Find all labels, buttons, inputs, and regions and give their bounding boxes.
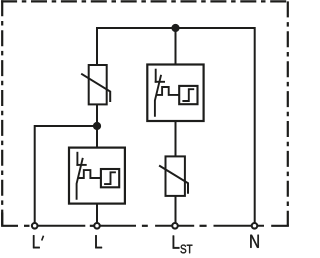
bottom rail dash-dot segment: left corner piece — [1, 213, 18, 226]
bottom rail dash between LST and N — [200, 225, 207, 227]
wire: varistor R1 bottom to junction — [96, 104, 98, 126]
terminal L' (open circle) — [32, 223, 38, 229]
terminal LST (open circle) — [172, 223, 178, 229]
spark gap F2 (triggered spark gap, lower left box) — [69, 148, 125, 204]
enclosure border right side (dash-dot) — [287, 1, 289, 226]
label L' — [33, 235, 44, 248]
spark gap F1 (triggered spark gap, top right box) — [147, 65, 203, 122]
wire: top rail down to varistor R1 — [96, 27, 98, 66]
bottom rail right corner piece — [271, 225, 289, 227]
bottom rail dash before L — [90, 225, 94, 227]
label N — [250, 235, 258, 248]
node: junction dot at varistor/branch — [93, 122, 101, 130]
bottom rail segment L' to gap — [35, 225, 86, 227]
terminal L (open circle) — [94, 223, 100, 229]
enclosure border left side (dash-dot) — [1, 0, 3, 226]
node: junction dot on top rail — [171, 24, 179, 32]
wire: right drop from top rail to terminal N — [254, 27, 256, 223]
label L — [95, 235, 102, 248]
wire: top rail down to spark gap F1 — [175, 28, 177, 65]
wire: L' column drop to terminal L' — [34, 125, 36, 223]
varistor R1 (top left) — [81, 65, 110, 104]
bottom rail segment gap to N — [214, 225, 265, 227]
bottom rail dash between L and LST — [142, 225, 148, 227]
wire: spark gap F1 bottom to varistor R2 — [175, 121, 177, 157]
label LST — [173, 236, 193, 254]
wire: spark gap F2 bottom to terminal L — [96, 204, 98, 224]
wire: top rail from column L to column N — [97, 27, 255, 29]
enclosure border top side (dash-dot) — [1, 0, 289, 2]
varistor R2 (middle right) — [159, 156, 188, 196]
bottom rail segment gap to LST — [155, 225, 194, 227]
wire: junction down to spark gap F2 — [96, 126, 98, 148]
wire: junction left to L' column — [35, 125, 97, 127]
bottom rail dash between corner and L' — [24, 225, 30, 227]
bottom rail segment L to gap — [97, 225, 136, 227]
wire: varistor R2 bottom to terminal LST — [175, 196, 177, 224]
terminal N (open circle) — [252, 223, 258, 229]
